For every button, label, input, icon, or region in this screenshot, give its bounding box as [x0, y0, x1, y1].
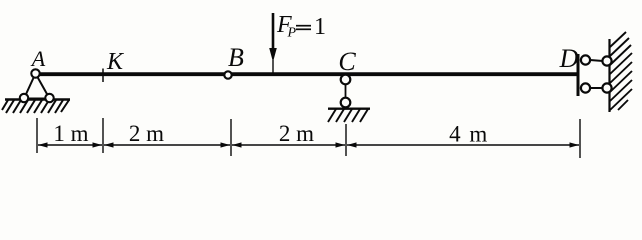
svg-text:B: B: [228, 43, 244, 72]
svg-text:1: 1: [314, 14, 326, 40]
svg-text:D: D: [559, 44, 579, 73]
svg-text:C: C: [338, 47, 356, 76]
svg-text:K: K: [106, 49, 125, 75]
svg-text:2 m: 2 m: [129, 121, 164, 146]
svg-text:P: P: [287, 26, 297, 41]
svg-text:2 m: 2 m: [279, 121, 314, 146]
svg-text:A: A: [30, 46, 46, 71]
svg-text:4 m: 4 m: [449, 122, 489, 147]
svg-text:1 m: 1 m: [53, 121, 88, 146]
